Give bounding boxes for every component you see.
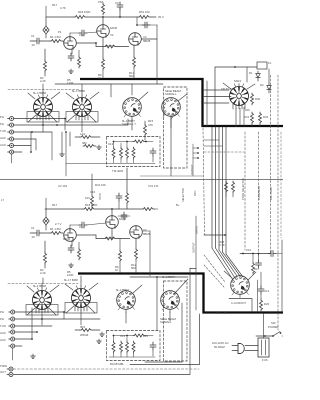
svg-text:6AN8: 6AN8 [119,217,126,221]
svg-text:SHIRALL 7: SHIRALL 7 [122,122,136,126]
svg-text:AUX: AUX [0,143,6,147]
svg-text:TAPE: TAPE [0,364,7,368]
svg-text:D2: D2 [260,83,264,87]
svg-text:SHIRALL: SHIRALL [165,92,177,96]
svg-text:PH: PH [0,310,4,314]
svg-text:3K9: 3K9 [80,325,85,329]
svg-text:R1 1.5M: R1 1.5M [50,35,61,39]
svg-text:6BM8: 6BM8 [143,232,151,236]
svg-text:C8A: C8A [98,0,104,4]
svg-text:120K: 120K [67,81,74,85]
svg-text:5AR4: 5AR4 [234,79,241,83]
svg-text:6L-17BM7: 6L-17BM7 [162,275,175,279]
svg-text:C10: C10 [246,248,252,252]
svg-text:B+: B+ [176,203,180,207]
svg-text:W5GB: W5GB [80,333,88,337]
svg-text:SR 35-07: SR 35-07 [221,87,233,91]
svg-text:TM-4004: TM-4004 [112,169,124,173]
svg-text:SHIRALL: SHIRALL [160,320,172,324]
svg-text:C31 471: C31 471 [148,184,159,188]
svg-text:560: 560 [131,266,136,270]
svg-text:AUX: AUX [0,136,6,140]
svg-text:R22: R22 [143,334,149,338]
svg-text:C13: C13 [120,334,126,338]
svg-text:PH: PH [0,122,4,126]
svg-text:560: 560 [129,74,134,78]
svg-text:R26: R26 [264,302,270,306]
svg-text:R27: R27 [254,267,260,271]
svg-text:V1A: V1A [79,33,84,37]
svg-text:480: 480 [82,141,87,145]
svg-text:25 V: 25 V [158,15,164,19]
svg-text:2.7 V: 2.7 V [55,222,62,226]
svg-text:103: 103 [85,196,90,200]
svg-text:PH: PH [0,317,4,321]
svg-text:R30: R30 [255,97,261,101]
svg-text:FUS: FUS [262,358,268,362]
svg-text:120K: 120K [67,273,74,277]
svg-text:R17: R17 [52,3,58,7]
svg-text:R41 10K: R41 10K [95,183,106,187]
svg-text:R18 100K: R18 100K [85,203,98,207]
svg-text:.02: .02 [31,43,35,47]
svg-text:V1.2: V1.2 [79,225,85,229]
svg-text:BAL-TREB: BAL-TREB [269,187,273,200]
svg-text:C1: C1 [31,226,35,230]
svg-text:SELECTOR: SELECTOR [181,188,185,202]
svg-text:L7: L7 [1,198,5,202]
svg-text:2.2K: 2.2K [40,79,46,83]
svg-text:LAS: LAS [80,132,85,136]
svg-text:22K: 22K [245,108,250,112]
svg-text:C16: C16 [90,190,96,194]
svg-text:6L-17BM8: 6L-17BM8 [72,89,85,93]
svg-text:POWER: POWER [268,325,279,329]
svg-text:.02: .02 [31,235,35,239]
svg-text:D1: D1 [249,71,253,75]
svg-text:50-60HZ: 50-60HZ [214,345,225,349]
svg-text:C2 104: C2 104 [58,184,67,188]
svg-text:1K: 1K [98,76,102,80]
svg-text:C1: C1 [31,34,35,38]
svg-text:R31: R31 [244,115,250,119]
svg-text:R1 1.5M: R1 1.5M [50,227,61,231]
svg-text:R18 100K: R18 100K [78,10,91,14]
svg-text:R8 47K: R8 47K [105,236,114,240]
svg-text:OUTPUT: OUTPUT [190,164,194,175]
svg-text:4.7K: 4.7K [219,243,225,247]
svg-text:C-A FRONT: C-A FRONT [231,301,246,305]
svg-text:C12: C12 [264,289,270,293]
svg-text:TUN: TUN [0,324,6,328]
svg-text:6AN8: 6AN8 [110,26,117,30]
svg-text:R32: R32 [263,115,269,119]
svg-text:AUX: AUX [0,331,6,335]
svg-text:6BM8: 6BM8 [143,39,151,43]
svg-text:6L-17 BM8: 6L-17 BM8 [64,278,78,282]
svg-text:LOUDNESS: LOUDNESS [257,185,261,200]
svg-text:C13: C13 [108,142,114,146]
svg-text:AUX: AUX [0,338,6,342]
svg-text:PH: PH [0,115,4,119]
svg-text:6AN8: 6AN8 [63,237,70,241]
svg-text:6L-17BM8: 6L-17BM8 [33,91,46,95]
svg-text:OUTPUT: OUTPUT [192,242,196,253]
svg-text:2.2K: 2.2K [40,271,46,275]
svg-text:DPC: DPC [193,190,197,196]
svg-text:R51 103: R51 103 [139,10,150,14]
svg-text:R8 47K: R8 47K [105,44,114,48]
svg-text:4.7K: 4.7K [60,6,66,10]
svg-text:BLGB MBL: BLGB MBL [110,362,124,366]
svg-text:V2: V2 [110,33,114,37]
svg-text:C9: C9 [115,1,119,5]
svg-text:1K: 1K [115,268,119,272]
svg-text:TUN: TUN [0,129,6,133]
svg-text:P1: P1 [58,30,62,34]
svg-text:SYNC: SYNC [98,193,102,200]
svg-text:F1: F1 [268,61,272,65]
svg-text:6L-17BM8: 6L-17BM8 [33,284,46,288]
svg-text:47K: 47K [148,123,153,127]
svg-text:(GRN): (GRN) [195,226,199,234]
svg-text:PUSH SELECTOR: PUSH SELECTOR [241,178,245,200]
svg-text:OUT: OUT [0,370,6,374]
svg-text:6L-17BM7: 6L-17BM7 [116,288,129,292]
svg-text:R17: R17 [52,203,58,207]
